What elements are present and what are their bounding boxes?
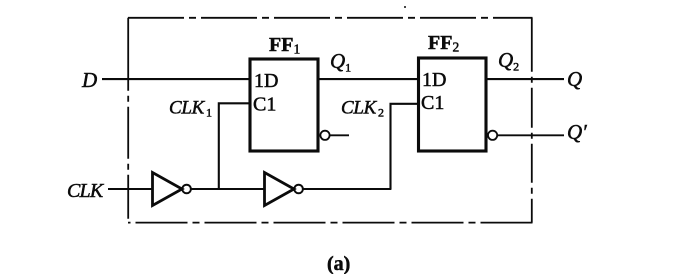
svg-text:D: D [81,68,97,92]
svg-text:C1: C1 [253,94,276,116]
svg-text:CLK1: CLK1 [169,98,212,120]
flip-flop FF1 body [250,59,318,151]
svg-text:Q: Q [567,67,582,91]
svg-text:Q2: Q2 [498,48,519,74]
svg-text:FF1: FF1 [269,34,300,57]
flip-flop FF2 body [419,58,487,151]
wire: CLK1 riser to FF1 C1 input [219,103,250,189]
svg-text:(a): (a) [327,253,350,274]
inverter I2 triangle [265,173,295,206]
svg-text:CLK: CLK [67,180,105,202]
FF2 inversion bubble [488,131,497,140]
scan speck [404,6,406,8]
wire: CLK input lead [108,188,153,190]
svg-text:C1: C1 [421,92,444,114]
wire: FF1 inverted-output stub [330,134,349,136]
wire: inverter1 output to inverter2 input [191,188,265,190]
svg-text:CLK2: CLK2 [341,98,384,120]
svg-text:Q′: Q′ [567,120,587,144]
svg-text:Q1: Q1 [330,49,351,75]
FF1 inversion bubble [320,131,329,140]
wire: Q' output lead from FF2 bubble [497,134,564,136]
inverter I2 bubble [294,185,303,194]
wire: Q2 / Q output lead [485,78,564,80]
svg-text:1D: 1D [254,70,278,92]
wire: inverter2 output to CLK2 riser [303,188,392,190]
dashed boundary box (chain line enclosure) [128,18,533,223]
inverter I1 triangle [153,173,183,206]
wire: CLK2 riser to FF2 C1 input [391,104,420,189]
svg-text:FF2: FF2 [428,32,459,55]
wire: D input lead [102,78,250,80]
inverter I1 bubble [182,185,191,194]
svg-text:1D: 1D [422,69,446,91]
wire: Q1 (FF1 output to FF2 1D input) [318,78,419,80]
